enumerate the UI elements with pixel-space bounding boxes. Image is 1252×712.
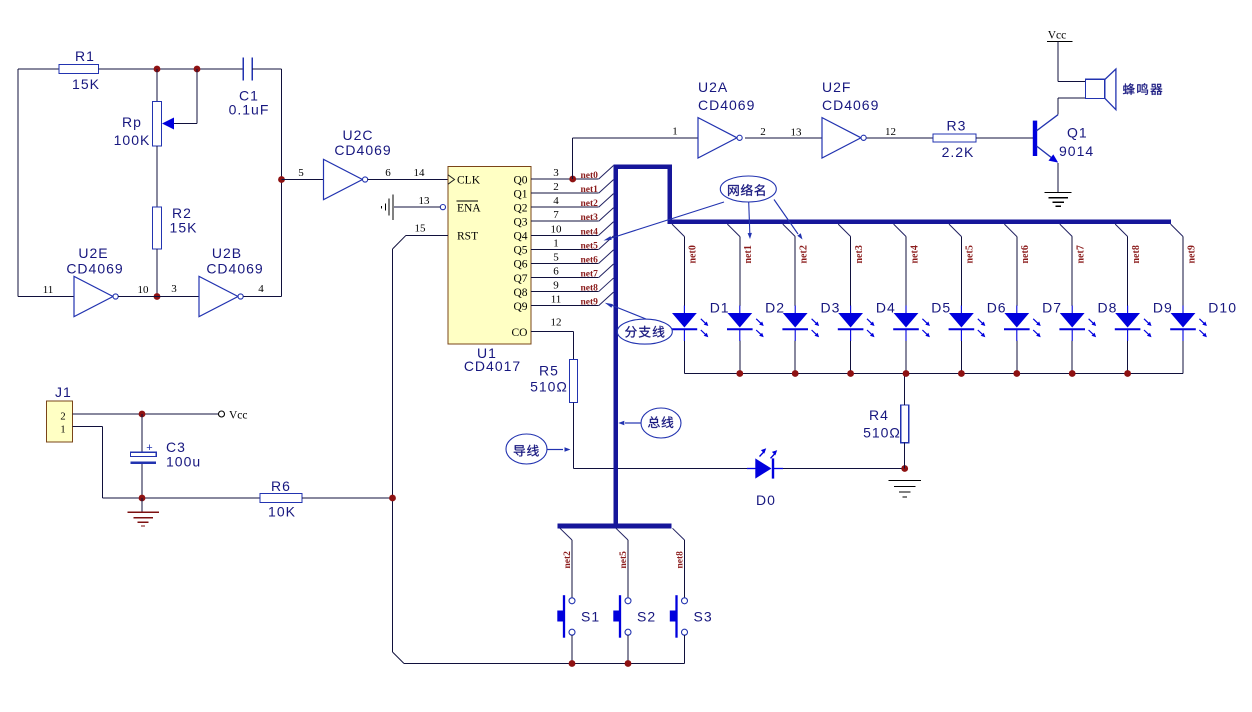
svg-text:Q7: Q7 (513, 273, 527, 285)
wire branch net7 (1060, 224, 1072, 236)
LED D9 (1115, 306, 1152, 342)
svg-text:3: 3 (553, 167, 559, 179)
svg-text:CD4069: CD4069 (206, 261, 263, 277)
capacitor C1 (242, 58, 244, 81)
svg-text:2.2K: 2.2K (942, 144, 975, 160)
svg-text:1: 1 (60, 425, 65, 436)
svg-text:100u: 100u (166, 454, 201, 470)
wire (18, 296, 74, 298)
wire branch net2 (560, 528, 572, 540)
svg-text:Q3: Q3 (513, 217, 527, 229)
svg-text:D1: D1 (710, 300, 730, 316)
svg-text:11: 11 (551, 294, 562, 306)
switch S3 (670, 595, 688, 638)
wire (1057, 42, 1059, 82)
svg-text:net4: net4 (909, 245, 920, 263)
svg-text:1: 1 (672, 126, 678, 138)
svg-text:S3: S3 (694, 609, 713, 625)
switch S1 (557, 595, 575, 638)
wire (571, 635, 573, 663)
svg-text:9014: 9014 (1059, 143, 1094, 159)
svg-text:net0: net0 (688, 245, 699, 263)
svg-text:Q1: Q1 (513, 188, 527, 200)
LED D3 (782, 306, 819, 342)
connector J1 (47, 401, 73, 442)
wire (196, 69, 198, 124)
svg-text:12: 12 (551, 317, 562, 329)
bus entry stub (599, 236, 614, 250)
svg-text:net0: net0 (581, 171, 599, 181)
svg-text:3: 3 (171, 283, 177, 295)
junction (901, 465, 908, 472)
wire LED cathode rail (684, 373, 1183, 375)
svg-text:510Ω: 510Ω (530, 379, 568, 395)
bus entry stub (599, 222, 614, 236)
wire (904, 374, 906, 406)
wire RST to switches (392, 249, 394, 652)
LED D10 (1170, 306, 1207, 342)
wire Q5 (531, 248, 599, 250)
wire (99, 68, 244, 70)
wire collector (1057, 98, 1059, 115)
annotation 导线 (wire) (506, 434, 547, 464)
svg-text:13: 13 (419, 195, 431, 207)
svg-text:2: 2 (760, 126, 766, 138)
LED D1 (672, 306, 709, 342)
wire (976, 137, 1033, 139)
wire (573, 332, 575, 360)
svg-text:CD4069: CD4069 (66, 261, 123, 277)
svg-text:Q0: Q0 (513, 174, 527, 186)
wire branch net8 (1115, 224, 1127, 236)
wire (573, 403, 575, 469)
svg-text:R1: R1 (75, 48, 95, 64)
svg-text:2: 2 (60, 412, 65, 423)
junction (139, 495, 146, 502)
wire (156, 146, 158, 207)
wire (102, 427, 104, 498)
svg-text:Q5: Q5 (513, 245, 527, 257)
svg-text:U2C: U2C (342, 127, 373, 143)
LED D8 (1059, 306, 1096, 342)
wire branch net6 (1004, 224, 1016, 236)
junction (139, 411, 146, 418)
wire branch net1 (727, 224, 739, 236)
wire Q8 (531, 291, 599, 293)
annotation arrow to bus (618, 421, 641, 425)
svg-text:D10: D10 (1208, 300, 1237, 316)
svg-text:net1: net1 (743, 245, 754, 263)
bus (thick) (616, 167, 1171, 526)
switch S2 (613, 595, 631, 638)
svg-text:S1: S1 (581, 609, 600, 625)
annotation 分支线 (branch line) (617, 319, 672, 344)
resistor R1 (59, 65, 99, 74)
wire (1058, 81, 1086, 83)
svg-text:10K: 10K (268, 504, 296, 520)
svg-text:net5: net5 (965, 245, 976, 263)
svg-text:D4: D4 (876, 300, 896, 316)
label buzzer (Chinese) (1123, 83, 1162, 95)
wire (302, 497, 393, 499)
svg-text:net2: net2 (563, 551, 573, 569)
svg-text:D0: D0 (756, 492, 776, 508)
bus T-bar bottom (557, 524, 671, 529)
svg-text:Q1: Q1 (1067, 125, 1088, 141)
wire branch net8 (673, 528, 685, 540)
op-amp U2A inverter (698, 118, 742, 158)
bus entry stub (599, 180, 614, 194)
wire (783, 468, 905, 470)
junction (736, 370, 743, 377)
wire (572, 138, 574, 179)
svg-text:net6: net6 (581, 255, 599, 265)
junction (958, 370, 965, 377)
svg-text:Vcc: Vcc (229, 410, 248, 422)
junction (194, 66, 201, 73)
junction (847, 370, 854, 377)
LED D0 (747, 448, 783, 478)
svg-text:5: 5 (553, 251, 559, 263)
svg-text:D6: D6 (987, 300, 1007, 316)
svg-text:CLK: CLK (457, 175, 481, 187)
svg-text:4: 4 (258, 283, 264, 295)
svg-text:12: 12 (885, 126, 896, 138)
svg-text:Q4: Q4 (513, 231, 527, 243)
wire (73, 426, 103, 428)
bus entry stub (599, 208, 614, 222)
svg-text:CD4069: CD4069 (698, 97, 755, 113)
wire (118, 296, 199, 298)
bus entry stub (599, 250, 614, 264)
op-amp U2C inverter (324, 159, 368, 199)
wire (684, 635, 686, 663)
junction (1013, 370, 1020, 377)
resistor R5 (570, 360, 578, 403)
svg-text:CD4069: CD4069 (822, 97, 879, 113)
annotation 总线 (bus) (641, 408, 681, 438)
svg-text:net3: net3 (854, 245, 865, 263)
svg-text:net7: net7 (1076, 245, 1087, 263)
svg-text:U2E: U2E (78, 245, 108, 261)
junction (903, 370, 910, 377)
junction (1124, 370, 1131, 377)
svg-text:RST: RST (457, 231, 478, 243)
resistor R4 (901, 405, 909, 443)
wire (627, 635, 629, 663)
svg-text:net2: net2 (581, 199, 599, 209)
wire (156, 69, 158, 102)
svg-text:9: 9 (553, 280, 559, 292)
svg-text:Q8: Q8 (513, 287, 527, 299)
wire (574, 468, 756, 470)
bus entry stub (599, 292, 614, 306)
junction (389, 495, 396, 502)
wire branch net9 (1171, 224, 1183, 236)
svg-text:D7: D7 (1042, 300, 1062, 316)
wire (684, 635, 686, 663)
svg-text:net3: net3 (581, 213, 599, 223)
wire branch net2 (783, 224, 795, 236)
junction (792, 370, 799, 377)
wire (282, 179, 324, 181)
wire branch net5 (949, 224, 961, 236)
svg-text:5: 5 (298, 167, 304, 179)
annotation 网络名 (net name) (720, 176, 776, 202)
svg-text:11: 11 (43, 284, 54, 296)
buzzer (1086, 69, 1116, 110)
wire (394, 206, 440, 208)
ground (below R4) (889, 481, 922, 498)
IC U1 CD4017 (448, 167, 531, 345)
svg-text:S2: S2 (637, 609, 656, 625)
junction (154, 293, 161, 300)
svg-text:ENA: ENA (457, 202, 481, 214)
svg-text:Vcc: Vcc (1048, 30, 1067, 42)
wire (393, 652, 405, 664)
bus entry stub (599, 166, 614, 180)
wire CO (531, 331, 574, 333)
ground (C3, power gnd) (127, 498, 159, 526)
svg-text:13: 13 (791, 126, 803, 138)
svg-text:2: 2 (553, 181, 559, 193)
op-amp U2B inverter (199, 276, 243, 316)
svg-text:R3: R3 (947, 118, 967, 134)
power Vcc (Q1) (1047, 30, 1072, 42)
svg-text:U2A: U2A (698, 79, 728, 95)
svg-text:D3: D3 (821, 300, 841, 316)
LED D2 (727, 306, 764, 342)
wire branch net3 (838, 224, 850, 236)
op-amp U2E inverter (74, 276, 118, 316)
resistor R3 (933, 134, 976, 142)
svg-text:D5: D5 (931, 300, 951, 316)
wire (156, 249, 158, 297)
bus entry stub (599, 194, 614, 208)
bus entry stub (599, 264, 614, 278)
resistor R2 (153, 207, 162, 249)
svg-text:net1: net1 (581, 185, 599, 195)
transistor Q1 (1035, 115, 1058, 163)
wire branch net5 (616, 528, 628, 540)
svg-text:D8: D8 (1098, 300, 1118, 316)
wire Q7 (531, 276, 599, 278)
svg-text:D9: D9 (1153, 300, 1173, 316)
svg-text:CO: CO (512, 327, 528, 339)
svg-text:net5: net5 (581, 241, 599, 251)
svg-text:14: 14 (414, 167, 426, 179)
annotation arrow to wire (547, 447, 571, 452)
svg-text:1: 1 (553, 237, 559, 249)
wire Q1 (531, 192, 599, 194)
wire Q6 (531, 262, 599, 264)
svg-text:R6: R6 (271, 478, 291, 494)
svg-text:net2: net2 (799, 245, 810, 263)
wire (867, 137, 933, 139)
wire Q0 (531, 178, 599, 180)
wire emitter (1057, 163, 1059, 192)
svg-text:4: 4 (553, 195, 559, 207)
wire (393, 235, 407, 249)
wire (281, 69, 283, 297)
svg-text:15: 15 (415, 223, 427, 235)
svg-text:510Ω: 510Ω (863, 425, 901, 441)
svg-text:7: 7 (553, 209, 559, 221)
resistor R6 (260, 494, 302, 503)
svg-text:Rp: Rp (122, 114, 142, 130)
wire Q2 (531, 206, 599, 208)
svg-text:net9: net9 (1186, 245, 1197, 263)
op-amp U2F inverter (822, 118, 866, 158)
wire Q3 (531, 220, 599, 222)
wire (406, 234, 448, 236)
ENA overline (457, 200, 479, 202)
wire (17, 69, 19, 297)
svg-text:net8: net8 (581, 284, 599, 294)
LED D4 (838, 306, 875, 342)
capacitor C3 (131, 414, 157, 498)
svg-text:15K: 15K (170, 220, 198, 236)
junction (1069, 370, 1076, 377)
wire (172, 123, 197, 125)
wire branch net0 (672, 224, 684, 236)
bus entry stub (599, 278, 614, 292)
wire (73, 413, 219, 415)
svg-text:0.1uF: 0.1uF (229, 102, 270, 118)
svg-text:D2: D2 (765, 300, 785, 316)
Rp wiper arrow (162, 118, 174, 130)
wire Q9 (531, 305, 599, 307)
power Vcc (J1) (219, 410, 248, 422)
svg-text:net6: net6 (1020, 245, 1031, 263)
potentiometer Rp (153, 102, 162, 147)
LED D6 (949, 306, 986, 342)
svg-text:Q2: Q2 (513, 202, 527, 214)
svg-text:U2B: U2B (212, 245, 242, 261)
wire (243, 296, 281, 298)
ENA bubble (440, 205, 445, 210)
svg-text:Q9: Q9 (513, 301, 527, 313)
svg-text:net5: net5 (619, 551, 629, 569)
svg-text:CD4017: CD4017 (464, 358, 521, 374)
annotation arrow to net2 (774, 200, 803, 240)
svg-text:100K: 100K (114, 132, 151, 148)
svg-text:CD4069: CD4069 (334, 142, 391, 158)
svg-text:Q6: Q6 (513, 259, 527, 271)
ground (below Q1) (1045, 193, 1072, 207)
svg-text:6: 6 (385, 167, 391, 179)
LED D7 (1004, 306, 1041, 342)
junction node net0 (569, 176, 576, 183)
svg-text:net8: net8 (676, 551, 686, 569)
svg-text:15K: 15K (72, 76, 100, 92)
ground (ENA pin 13) (382, 195, 394, 221)
wire switch common (404, 663, 685, 665)
annotation arrow to net9 stub (605, 303, 646, 319)
annotation arrow to net1 (748, 202, 752, 239)
svg-text:6: 6 (553, 265, 559, 277)
junction (625, 660, 632, 667)
wire (573, 137, 698, 139)
LED D5 (893, 306, 930, 342)
annotation arrow to net5 stub (604, 202, 725, 241)
junction (154, 66, 161, 73)
wire (18, 68, 59, 70)
node 5 (278, 176, 285, 183)
wire branch net4 (894, 224, 906, 236)
svg-text:R4: R4 (869, 407, 889, 423)
svg-text:net7: net7 (581, 269, 599, 279)
svg-text:10: 10 (138, 284, 150, 296)
svg-text:J1: J1 (55, 384, 72, 400)
svg-text:10: 10 (551, 223, 563, 235)
svg-text:net9: net9 (581, 298, 599, 308)
wire (252, 68, 281, 70)
wire Q4 (531, 234, 599, 236)
svg-text:net4: net4 (581, 227, 599, 237)
wire (904, 443, 906, 469)
svg-text:net8: net8 (1131, 245, 1142, 263)
junction (569, 660, 576, 667)
wire (103, 497, 260, 499)
svg-text:R5: R5 (539, 363, 559, 379)
wire (745, 137, 822, 139)
wire (1058, 97, 1086, 99)
wire (368, 179, 448, 181)
svg-text:U2F: U2F (822, 79, 851, 95)
svg-text:+: + (146, 442, 152, 454)
